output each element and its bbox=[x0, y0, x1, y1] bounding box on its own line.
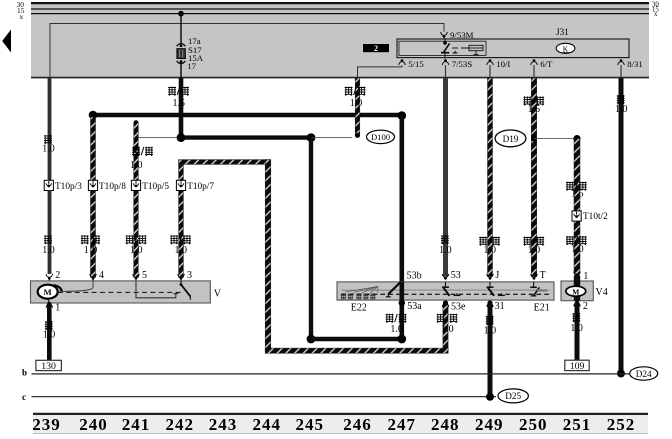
relay inner box bbox=[399, 41, 486, 55]
bus bar 30 bbox=[31, 2, 649, 4]
link terminal to band edge bbox=[533, 65, 535, 78]
relay symbol K bbox=[556, 43, 575, 53]
relay dashes bbox=[452, 47, 458, 49]
junction bbox=[89, 111, 98, 120]
rail b bbox=[32, 373, 630, 375]
motor V box bbox=[31, 281, 211, 303]
svg-text:1: 1 bbox=[84, 245, 89, 256]
svg-text:M: M bbox=[44, 287, 52, 297]
motor V4 symbol M bbox=[566, 286, 586, 296]
label black/grey 1.5 bbox=[168, 87, 176, 96]
svg-text:252: 252 bbox=[607, 415, 636, 434]
svg-text:249: 249 bbox=[475, 415, 504, 434]
svg-text:K: K bbox=[563, 44, 569, 53]
svg-text:J: J bbox=[495, 270, 499, 281]
svg-text:239: 239 bbox=[32, 415, 61, 434]
continuation arrow bbox=[2, 30, 11, 53]
node D24 bbox=[630, 367, 658, 380]
terminal E22 T bbox=[531, 274, 538, 280]
V internal 1 link bbox=[48, 299, 50, 303]
junction D19 bbox=[531, 136, 537, 142]
svg-text:1.0: 1.0 bbox=[484, 245, 497, 256]
node D100 bbox=[367, 130, 395, 143]
svg-text:247: 247 bbox=[388, 415, 417, 434]
label brown/black 1.0 bbox=[479, 237, 487, 246]
wire brown 8/31 bbox=[619, 78, 624, 372]
junction bbox=[573, 135, 580, 142]
svg-text:3: 3 bbox=[187, 270, 192, 281]
relay coil element bbox=[469, 45, 483, 50]
label brown 1.0 31 bbox=[486, 316, 494, 325]
terminal E22 53 bbox=[442, 274, 449, 280]
track band bbox=[33, 415, 648, 433]
svg-text:109: 109 bbox=[570, 361, 585, 372]
svg-text:1.0: 1.0 bbox=[439, 245, 452, 256]
wire brown V4 ground bbox=[575, 302, 580, 360]
track band top edge bbox=[33, 413, 648, 415]
node D25 bbox=[498, 389, 528, 403]
svg-text:240: 240 bbox=[79, 415, 108, 434]
E22 switch 53 bbox=[445, 282, 447, 287]
ground 130 bbox=[36, 360, 62, 370]
svg-text:1.0: 1.0 bbox=[484, 325, 497, 336]
wire stub black-grey bbox=[134, 120, 139, 125]
terminal 5/15 bbox=[399, 59, 406, 65]
E22 chinese note bbox=[345, 286, 378, 292]
wire loop right vertical bbox=[265, 160, 271, 353]
svg-text:53a: 53a bbox=[407, 301, 422, 312]
label green/yellow bbox=[81, 235, 89, 244]
junction bbox=[177, 133, 186, 142]
wire brown-black J bbox=[488, 78, 493, 277]
svg-text:D100: D100 bbox=[371, 132, 390, 142]
link terminal to band edge bbox=[620, 65, 622, 78]
E22 switch 53b bbox=[389, 282, 401, 294]
svg-text:1.5: 1.5 bbox=[571, 189, 584, 200]
bus bar 15 bbox=[31, 8, 649, 10]
svg-text:T10p/8: T10p/8 bbox=[99, 182, 126, 192]
wire green-yellow V4t bbox=[91, 117, 96, 278]
svg-text:5: 5 bbox=[142, 270, 147, 281]
label green/red 1.0 bbox=[566, 236, 574, 245]
wire brown 31 bbox=[488, 303, 493, 397]
svg-text:9/53M: 9/53M bbox=[450, 30, 474, 40]
wire black-grey D100 bbox=[355, 78, 360, 134]
svg-text:130: 130 bbox=[41, 361, 56, 372]
terminal 7/53S bbox=[442, 59, 449, 65]
svg-text:1.0: 1.0 bbox=[43, 329, 56, 340]
terminal 9/53M bbox=[441, 32, 448, 38]
svg-text:1.0: 1.0 bbox=[130, 245, 143, 256]
junction bbox=[307, 335, 316, 344]
wire green V2 upper bbox=[48, 78, 52, 181]
label brown 1.0 bbox=[45, 321, 53, 330]
label green/red 1.5 bbox=[566, 182, 574, 191]
label green 1.0 bbox=[441, 235, 449, 244]
svg-text:251: 251 bbox=[563, 415, 592, 434]
switch E22 box bbox=[337, 282, 554, 300]
svg-text:245: 245 bbox=[296, 415, 325, 434]
V internal 3 switch bbox=[180, 281, 182, 284]
svg-text:E21: E21 bbox=[534, 303, 550, 314]
svg-text:241: 241 bbox=[122, 415, 151, 434]
terminal E22 J bbox=[487, 274, 494, 280]
wire green-brown 6T bbox=[531, 78, 536, 277]
terminal 10/I bbox=[487, 59, 494, 65]
E22 internal dashed bbox=[342, 293, 550, 295]
ground 109 bbox=[565, 360, 589, 370]
link terminal to band edge bbox=[489, 65, 491, 78]
svg-text:1.0: 1.0 bbox=[570, 323, 583, 334]
V internal 4 link bbox=[58, 281, 93, 291]
terminal V4 2 bbox=[575, 301, 579, 305]
junction bbox=[398, 111, 407, 120]
svg-text:248: 248 bbox=[431, 415, 460, 434]
svg-text:T10p/7: T10p/7 bbox=[187, 182, 214, 192]
terminal 6/T bbox=[531, 59, 538, 65]
terminal V 3 bbox=[178, 274, 185, 280]
svg-text:2: 2 bbox=[374, 44, 378, 53]
terminal 53e bbox=[443, 300, 448, 305]
connector T10t/2 bbox=[572, 211, 581, 221]
svg-text:1.0: 1.0 bbox=[390, 324, 403, 335]
label green 1.0 bbox=[44, 135, 52, 144]
wire 53b vertical bbox=[399, 116, 404, 339]
label green/black 1.0 53e bbox=[437, 314, 445, 323]
label green/black 1.0 bbox=[170, 235, 178, 244]
svg-text:31: 31 bbox=[495, 301, 505, 312]
wire green-black V3 bbox=[179, 160, 184, 278]
label black/grey 1.0 bbox=[132, 147, 140, 156]
svg-text:1.0: 1.0 bbox=[130, 160, 143, 171]
svg-text:53b: 53b bbox=[407, 271, 422, 282]
label green 1.0 bbox=[44, 235, 52, 244]
wire D19 link bbox=[534, 138, 577, 140]
wire loop bottom bbox=[265, 348, 448, 353]
connector T10p/5 bbox=[131, 180, 140, 190]
terminal V 5 bbox=[133, 274, 140, 280]
svg-text:D19: D19 bbox=[503, 134, 519, 144]
svg-text:5/15: 5/15 bbox=[408, 59, 424, 69]
E22 switch J bbox=[489, 282, 491, 287]
svg-text:E22: E22 bbox=[351, 303, 367, 314]
terminal 53a bbox=[399, 300, 405, 306]
V internal 5 link bbox=[136, 281, 176, 298]
current track ref 2 bbox=[363, 44, 389, 52]
V internal dashed bbox=[58, 291, 183, 293]
internal link wire 9/53M to V bbox=[50, 24, 444, 79]
relay J31 box bbox=[397, 39, 629, 58]
svg-text:6/T: 6/T bbox=[540, 59, 553, 69]
svg-text:8/31: 8/31 bbox=[627, 59, 643, 69]
terminal V4 1 bbox=[575, 274, 579, 278]
svg-text:1.0: 1.0 bbox=[42, 245, 55, 256]
label black/grey 1.0 bbox=[126, 235, 134, 244]
rail c bbox=[32, 396, 497, 398]
svg-text:c: c bbox=[22, 392, 26, 402]
link terminal to band edge bbox=[445, 65, 447, 78]
E21 switch T bbox=[533, 282, 535, 287]
wire fuse feed bbox=[180, 14, 182, 44]
svg-text:x: x bbox=[654, 11, 658, 18]
node D19 bbox=[495, 130, 526, 147]
label green/red 1.0 bbox=[523, 237, 531, 246]
svg-text:J31: J31 bbox=[556, 27, 569, 37]
terminal 8/31 bbox=[618, 59, 625, 65]
E22 internal rail bbox=[342, 289, 550, 291]
svg-text:53: 53 bbox=[451, 270, 461, 281]
svg-text:x: x bbox=[20, 12, 24, 21]
wire 53a vertical bbox=[309, 138, 313, 339]
wire fuse thick bbox=[179, 78, 184, 134]
svg-text:V: V bbox=[214, 288, 222, 299]
wire green V2 lower bbox=[48, 190, 52, 274]
junction D25 bbox=[486, 393, 494, 401]
connector T10p/3 bbox=[44, 180, 53, 190]
wire D100 thick bbox=[184, 135, 311, 139]
connector T10p/8 bbox=[88, 180, 97, 190]
wire fuse out bbox=[180, 63, 182, 78]
link 5/15 to wire bbox=[358, 65, 403, 78]
svg-text:1.5: 1.5 bbox=[173, 98, 186, 109]
wire D100 thin left bbox=[138, 137, 177, 139]
junction D24 bbox=[617, 370, 625, 378]
label brown 1.0 bbox=[617, 95, 625, 104]
svg-text:7/53S: 7/53S bbox=[452, 59, 473, 69]
connector T10p/7 bbox=[176, 180, 185, 190]
label brown 1.0 bbox=[573, 313, 581, 322]
svg-text:1.0: 1.0 bbox=[350, 98, 363, 109]
band bottom edge bbox=[31, 77, 649, 79]
svg-text:250: 250 bbox=[519, 415, 548, 434]
label black/grey 1.0 bbox=[345, 87, 353, 96]
terminal 31 bbox=[487, 300, 492, 305]
svg-text:V4: V4 bbox=[596, 287, 608, 298]
wire 53b horizontal bbox=[93, 113, 402, 117]
wire loop to 53e bbox=[443, 305, 448, 348]
svg-text:1.0: 1.0 bbox=[175, 245, 188, 256]
svg-text:T: T bbox=[540, 270, 546, 281]
svg-text:1.0: 1.0 bbox=[441, 324, 454, 335]
wire D100 thin right bbox=[311, 137, 352, 139]
junction bbox=[397, 335, 406, 344]
svg-text:0: 0 bbox=[92, 245, 97, 256]
svg-text:53e: 53e bbox=[451, 302, 466, 313]
terminal V 4 bbox=[90, 274, 97, 280]
svg-text:b: b bbox=[22, 368, 27, 378]
svg-text:246: 246 bbox=[343, 415, 372, 434]
svg-text:1: 1 bbox=[55, 302, 60, 313]
wire green 53 bbox=[443, 78, 448, 277]
svg-text:M: M bbox=[572, 287, 579, 296]
svg-text:2: 2 bbox=[583, 301, 588, 312]
wire 53a horizontal bbox=[311, 337, 402, 341]
wire inside V4 bbox=[574, 275, 580, 300]
svg-text:242: 242 bbox=[166, 415, 195, 434]
motor V4 box bbox=[561, 281, 593, 301]
svg-text:17: 17 bbox=[187, 61, 196, 71]
node on bus X bbox=[178, 11, 184, 17]
E22 wire 53b through box bbox=[399, 282, 404, 303]
svg-text:244: 244 bbox=[253, 415, 282, 434]
svg-text:T10t/2: T10t/2 bbox=[583, 212, 608, 222]
svg-text:243: 243 bbox=[209, 415, 238, 434]
terminal V 2 bbox=[46, 274, 53, 280]
motor V symbol M bbox=[38, 285, 58, 299]
svg-text:T10p/5: T10p/5 bbox=[142, 182, 169, 192]
power supply bus band bbox=[31, 2, 649, 78]
svg-text:1.0: 1.0 bbox=[571, 244, 584, 255]
svg-text:1.0: 1.0 bbox=[615, 104, 628, 115]
svg-text:D25: D25 bbox=[505, 391, 521, 401]
label green/brown 1.5 bbox=[523, 96, 531, 105]
wire brown V ground bbox=[47, 304, 52, 360]
svg-text:10/I: 10/I bbox=[496, 59, 510, 69]
fuse S17 bbox=[177, 43, 186, 46]
junction bbox=[307, 133, 316, 142]
svg-text:2: 2 bbox=[55, 270, 60, 281]
svg-text:4: 4 bbox=[99, 270, 104, 281]
wire green-red V4 bbox=[574, 139, 580, 274]
svg-text:1.0: 1.0 bbox=[528, 245, 541, 256]
bus bar X bbox=[31, 13, 649, 15]
svg-text:T10p/3: T10p/3 bbox=[55, 182, 82, 192]
label black/grey 1.0 53a bbox=[386, 314, 394, 323]
relay contact bbox=[444, 39, 446, 42]
svg-text:D24: D24 bbox=[636, 369, 652, 379]
wire loop top bbox=[179, 160, 271, 165]
svg-text:1.0: 1.0 bbox=[42, 144, 55, 155]
terminal V 1 bbox=[47, 302, 51, 306]
svg-text:1.5: 1.5 bbox=[528, 104, 541, 115]
